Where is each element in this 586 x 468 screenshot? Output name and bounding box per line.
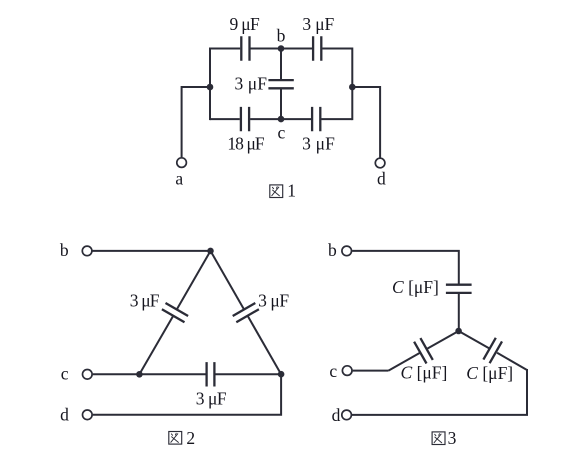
- wire: bottom capacitor to bottom-right vertex: [215, 373, 281, 375]
- wire: to terminal a: [182, 87, 210, 157]
- node b junction dot: [278, 45, 285, 52]
- wire: fig1 bottom rail left segment: [210, 118, 240, 120]
- triangle apex junction dot: [207, 248, 214, 255]
- label 3 uF (fig1 bottom right): [302, 133, 335, 153]
- terminal d circle (fig2): [83, 410, 93, 420]
- wire: left diagonal lower segment to bend: [389, 353, 420, 371]
- label 3 uF (fig2 bottom): [196, 389, 227, 409]
- label terminal c (fig3): [329, 361, 337, 381]
- capacitor C (fig3 right) plates: [483, 338, 502, 363]
- svg-text:d: d: [377, 168, 386, 188]
- svg-text:18 μF: 18 μF: [227, 134, 265, 154]
- svg-text:d: d: [332, 405, 341, 425]
- capacitor 3uF (fig2 left) plates: [162, 303, 188, 322]
- svg-text:C [μF]: C [μF]: [392, 277, 439, 297]
- wire: center node to right diagonal upper segment: [459, 331, 490, 349]
- capacitor 3uF (fig2 right) plates: [233, 303, 259, 322]
- wire: fig1 top rail middle segment: [251, 48, 313, 50]
- center node junction dot: [455, 328, 462, 335]
- wire: triangle left edge upper segment: [177, 251, 210, 309]
- label terminal d (fig1): [377, 168, 386, 188]
- wire: fig1 top rail right segment: [322, 48, 352, 50]
- svg-text:c: c: [329, 361, 337, 381]
- svg-text:3 μF: 3 μF: [302, 14, 334, 34]
- wire: to terminal d: [352, 87, 380, 158]
- svg-text:3: 3: [448, 428, 457, 448]
- label terminal b (fig3): [328, 240, 337, 260]
- terminal c circle (fig3): [342, 366, 352, 376]
- svg-text:b: b: [60, 240, 69, 260]
- label terminal d (fig3): [332, 405, 341, 425]
- wire: right diagonal lower segment to bend: [497, 353, 527, 370]
- svg-text:d: d: [60, 405, 69, 425]
- wire: c to left bend: [353, 370, 389, 372]
- wire: fig1 top rail left segment: [210, 48, 240, 50]
- label terminal b (fig2): [60, 240, 69, 260]
- wire: triangle right edge lower segment: [248, 316, 281, 374]
- label C [uF] (fig3 top): [392, 277, 439, 297]
- label 3 uF (fig1 top right): [302, 14, 334, 34]
- svg-text:2: 2: [186, 428, 195, 448]
- svg-text:3 μF: 3 μF: [196, 389, 227, 409]
- node c junction dot: [278, 116, 285, 123]
- svg-text:a: a: [175, 168, 183, 188]
- svg-text:b: b: [328, 240, 337, 260]
- svg-text:3 μF: 3 μF: [302, 133, 335, 153]
- label node c (fig1): [278, 122, 286, 142]
- wire: fig1 bottom rail right segment: [321, 118, 352, 120]
- wire: d rail up to right bend: [352, 369, 527, 415]
- capacitor 3uF (top right) plates: [313, 36, 321, 60]
- svg-text:3 μF: 3 μF: [235, 73, 268, 93]
- junction dot left (node a side): [207, 84, 214, 91]
- svg-text:c: c: [278, 122, 286, 142]
- capacitor C (fig3 top) plates: [446, 285, 472, 293]
- capacitor C (fig3 left) plates: [414, 338, 433, 363]
- svg-text:C [μF]: C [μF]: [401, 363, 448, 383]
- terminal d circle (fig3): [342, 410, 352, 420]
- label 3 uF (fig1 middle): [235, 73, 268, 93]
- caption 図3: [432, 428, 457, 448]
- wire: middle capacitor to node c: [280, 89, 282, 119]
- label node b (fig1): [277, 25, 286, 45]
- label terminal d (fig2): [60, 405, 69, 425]
- wire: c to bottom-left vertex and on to capacitor: [93, 373, 206, 375]
- label 3 uF (fig2 right): [258, 291, 289, 311]
- wire: fig1 bottom rail middle segment: [250, 118, 311, 120]
- svg-text:1: 1: [287, 180, 296, 200]
- terminal b circle (fig2): [82, 246, 92, 256]
- svg-text:c: c: [61, 363, 69, 383]
- terminal b circle (fig3): [342, 246, 352, 256]
- label C [uF] (fig3 bottom right): [466, 363, 513, 383]
- wire: triangle right edge upper segment: [211, 251, 244, 309]
- triangle bottom-right junction dot: [278, 371, 285, 378]
- caption 図2: [169, 428, 195, 448]
- junction dot right (node d side): [349, 84, 356, 91]
- wire: top capacitor to center node: [458, 294, 460, 331]
- wire: node b to middle capacitor: [280, 49, 282, 80]
- label terminal c (fig2): [61, 363, 69, 383]
- label C [uF] (fig3 bottom left): [401, 363, 448, 383]
- terminal d circle: [375, 158, 385, 168]
- wire: fig1 right edge: [351, 48, 353, 121]
- capacitor 3uF (bottom right) plates: [312, 107, 320, 131]
- wire: d rail to bottom-right vertex: [93, 374, 281, 415]
- terminal c circle (fig2): [83, 370, 93, 380]
- terminal a circle: [177, 158, 187, 168]
- svg-text:C [μF]: C [μF]: [466, 363, 513, 383]
- wire: b to top capacitor: [352, 251, 459, 284]
- wire: fig1 left edge: [209, 48, 211, 121]
- label terminal a: [175, 168, 183, 188]
- capacitor 3uF (middle) plates: [268, 80, 293, 88]
- wire: center node to left diagonal upper segment: [427, 331, 459, 349]
- svg-text:b: b: [277, 25, 286, 45]
- svg-text:9 μF: 9 μF: [230, 14, 260, 34]
- label 9 uF: [230, 14, 260, 34]
- label 3 uF (fig2 left): [130, 291, 160, 311]
- svg-text:3 μF: 3 μF: [258, 291, 289, 311]
- wire: b to triangle apex: [93, 250, 211, 252]
- capacitor 9uF plates: [241, 36, 249, 60]
- wire: triangle left edge lower segment: [139, 316, 173, 374]
- capacitor 3uF (fig2 bottom) plates: [207, 362, 215, 386]
- label 18 uF: [227, 134, 265, 154]
- triangle bottom-left junction dot: [136, 371, 143, 378]
- capacitor 18uF plates: [241, 107, 249, 131]
- caption 図1: [270, 180, 296, 200]
- svg-text:3 μF: 3 μF: [130, 291, 160, 311]
